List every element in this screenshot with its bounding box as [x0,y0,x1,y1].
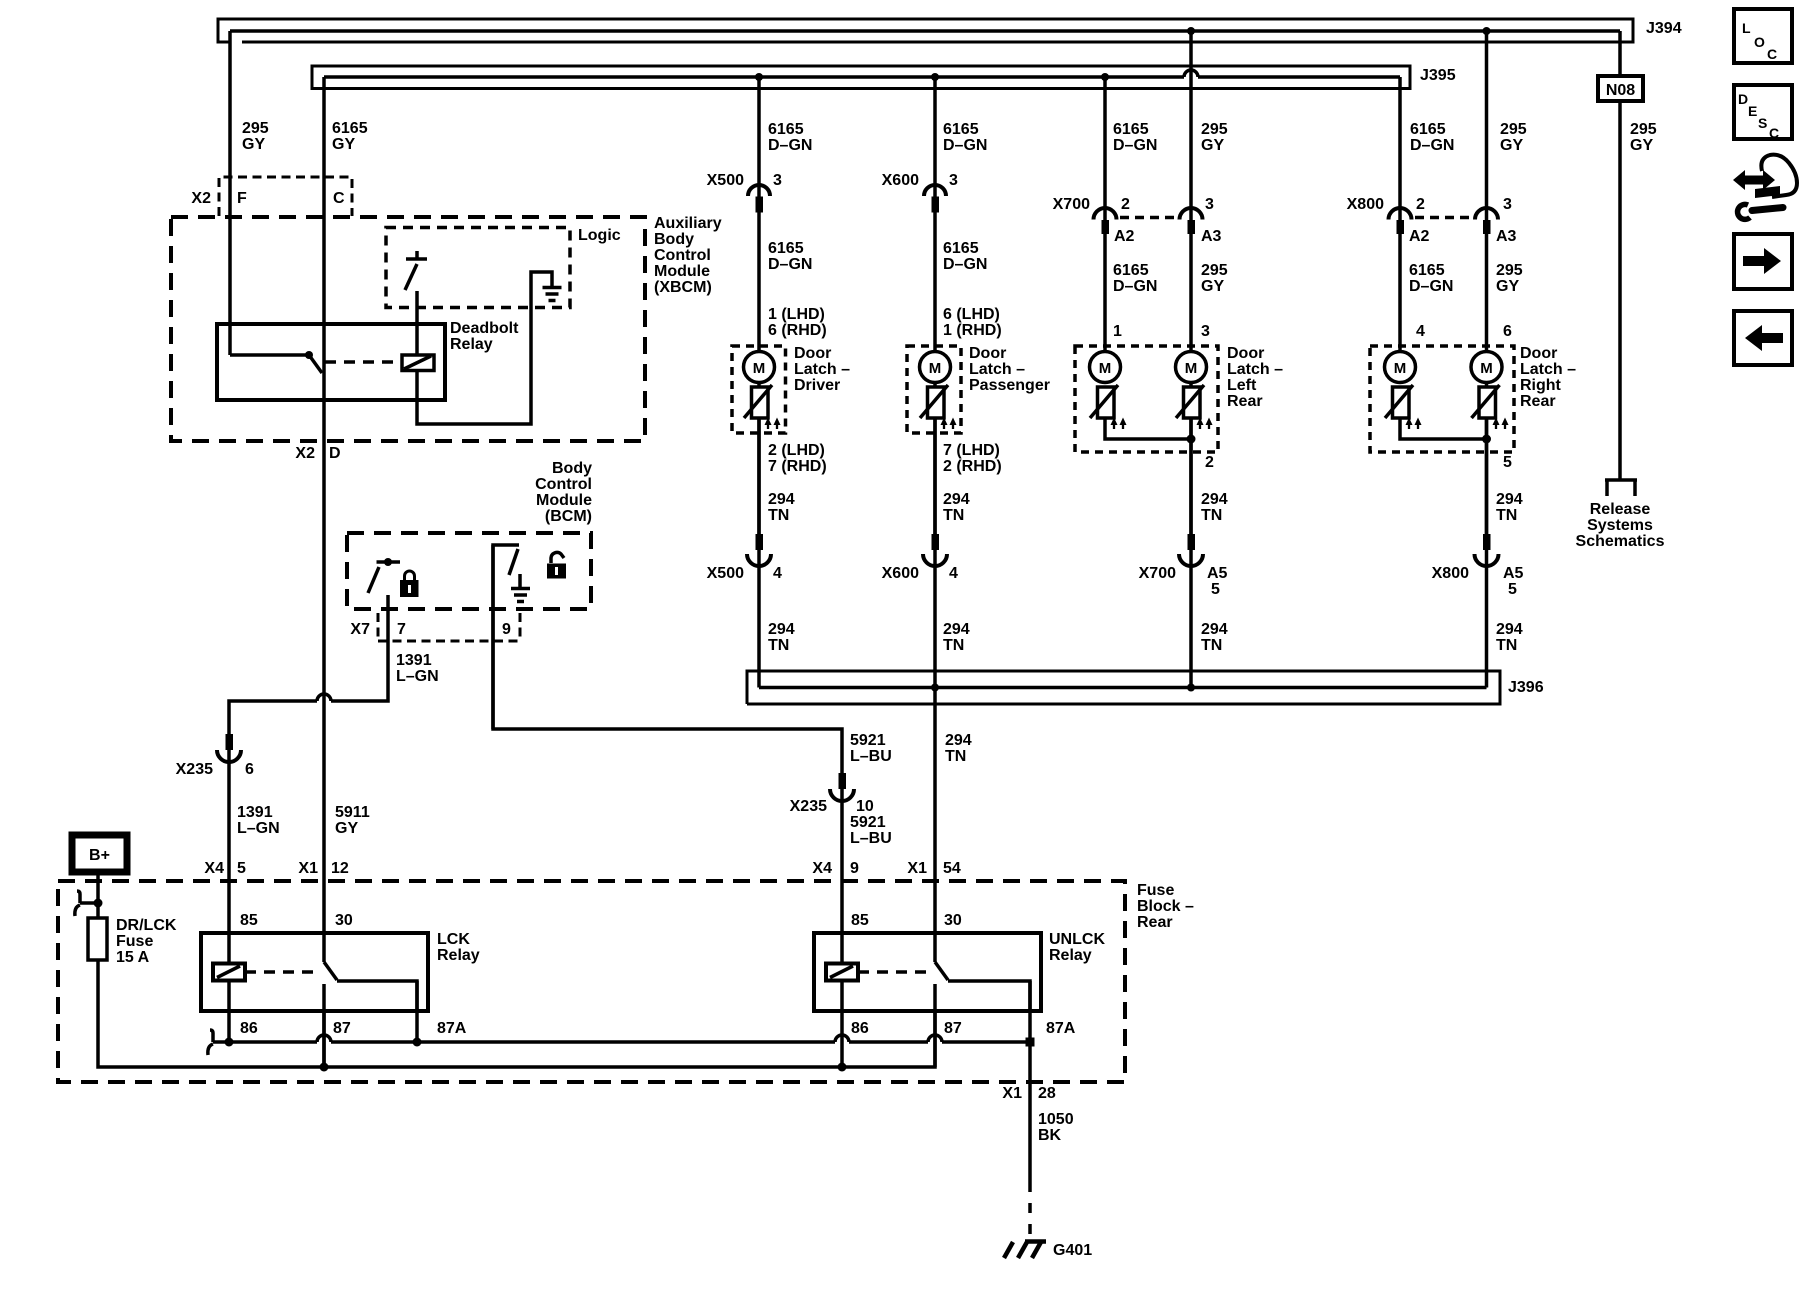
svg-text:1391: 1391 [396,652,432,669]
svg-text:Fuse: Fuse [1137,882,1174,899]
svg-text:TN: TN [1496,507,1517,524]
svg-text:Door: Door [1520,345,1557,362]
svg-text:GY: GY [1630,137,1653,154]
svg-text:Release: Release [1590,501,1651,518]
svg-text:X600: X600 [882,565,919,582]
svg-text:D–GN: D–GN [1410,137,1454,154]
svg-text:X7: X7 [350,621,370,638]
svg-text:4: 4 [773,565,782,582]
svg-text:294: 294 [1201,491,1228,508]
svg-text:10: 10 [856,798,874,815]
svg-text:Systems: Systems [1587,517,1653,534]
svg-text:X500: X500 [707,172,744,189]
svg-text:295: 295 [242,120,269,137]
svg-text:9: 9 [502,621,511,638]
svg-text:X4: X4 [204,860,224,877]
svg-text:GY: GY [335,820,358,837]
svg-text:Latch –: Latch – [794,361,850,378]
svg-text:J394: J394 [1646,20,1682,37]
svg-text:6165: 6165 [943,121,979,138]
svg-text:6165: 6165 [1113,262,1149,279]
svg-text:294: 294 [768,491,795,508]
svg-text:28: 28 [1038,1085,1056,1102]
svg-text:295: 295 [1201,262,1228,279]
svg-text:Control: Control [535,476,592,493]
svg-text:Relay: Relay [1049,947,1092,964]
svg-text:TN: TN [943,507,964,524]
svg-text:X800: X800 [1432,565,1469,582]
svg-text:6: 6 [1503,323,1512,340]
svg-text:Auxiliary: Auxiliary [654,215,722,232]
svg-text:Rear: Rear [1227,393,1263,410]
svg-text:6165: 6165 [1113,121,1149,138]
svg-text:294: 294 [768,621,795,638]
svg-text:L: L [1742,20,1751,36]
svg-text:Relay: Relay [437,947,480,964]
svg-text:6165: 6165 [768,121,804,138]
svg-text:D–GN: D–GN [768,256,812,273]
svg-text:6165: 6165 [943,240,979,257]
svg-text:87A: 87A [437,1020,467,1037]
svg-text:3: 3 [773,172,782,189]
svg-text:294: 294 [1496,621,1523,638]
svg-text:A5: A5 [1207,565,1228,582]
svg-text:(XBCM): (XBCM) [654,279,712,296]
svg-text:Fuse: Fuse [116,933,153,950]
svg-text:(BCM): (BCM) [545,508,592,525]
svg-text:D–GN: D–GN [1113,278,1157,295]
svg-text:C: C [1767,46,1777,62]
svg-text:5: 5 [1503,454,1512,471]
svg-text:L–BU: L–BU [850,748,892,765]
svg-text:295: 295 [1630,121,1657,138]
svg-text:2: 2 [1205,454,1214,471]
svg-text:15 A: 15 A [116,949,150,966]
svg-text:L–BU: L–BU [850,830,892,847]
svg-text:6165: 6165 [332,120,368,137]
svg-text:M: M [753,360,766,377]
svg-text:2: 2 [1121,196,1130,213]
svg-text:12: 12 [331,860,349,877]
svg-text:M: M [1185,360,1198,377]
svg-text:2: 2 [1416,196,1425,213]
svg-text:Rear: Rear [1137,914,1173,931]
svg-text:X2: X2 [295,445,315,462]
svg-text:5: 5 [1508,581,1517,598]
svg-text:294: 294 [943,491,970,508]
svg-text:BK: BK [1038,1127,1062,1144]
svg-text:Left: Left [1227,377,1257,394]
svg-text:GY: GY [332,136,355,153]
svg-text:M: M [1480,360,1493,377]
svg-text:5921: 5921 [850,732,886,749]
svg-text:6 (RHD): 6 (RHD) [768,322,827,339]
svg-text:Deadbolt: Deadbolt [450,320,519,337]
svg-text:F: F [237,190,247,207]
svg-text:D: D [329,445,341,462]
svg-text:2 (LHD): 2 (LHD) [768,442,825,459]
svg-text:C: C [1769,125,1779,141]
svg-text:TN: TN [1201,637,1222,654]
svg-text:D–GN: D–GN [1113,137,1157,154]
svg-text:295: 295 [1500,121,1527,138]
svg-text:Body: Body [552,460,592,477]
svg-text:86: 86 [240,1020,258,1037]
svg-text:87: 87 [333,1020,351,1037]
svg-text:J395: J395 [1420,67,1456,84]
svg-text:294: 294 [945,732,972,749]
svg-text:1: 1 [1113,323,1122,340]
svg-text:3: 3 [1201,323,1210,340]
svg-text:TN: TN [768,507,789,524]
svg-text:5911: 5911 [335,804,370,821]
svg-text:A5: A5 [1503,565,1524,582]
svg-text:A2: A2 [1409,228,1430,245]
svg-text:X700: X700 [1139,565,1176,582]
svg-text:TN: TN [945,748,966,765]
svg-text:6 (LHD): 6 (LHD) [943,306,1000,323]
svg-text:A2: A2 [1114,228,1135,245]
svg-text:Door: Door [794,345,831,362]
svg-text:6: 6 [245,761,254,778]
svg-text:X2: X2 [191,190,211,207]
svg-text:87: 87 [944,1020,962,1037]
svg-text:Passenger: Passenger [969,377,1050,394]
svg-text:Door: Door [969,345,1006,362]
svg-text:5: 5 [1211,581,1220,598]
svg-text:6165: 6165 [1409,262,1445,279]
svg-text:GY: GY [1500,137,1523,154]
svg-text:6165: 6165 [768,240,804,257]
svg-text:X4: X4 [812,860,832,877]
svg-text:Logic: Logic [578,227,621,244]
svg-text:1050: 1050 [1038,1111,1074,1128]
svg-text:D: D [1738,91,1748,107]
svg-text:1391: 1391 [237,804,273,821]
svg-text:3: 3 [1205,196,1214,213]
svg-text:295: 295 [1496,262,1523,279]
svg-text:Latch –: Latch – [1227,361,1283,378]
svg-text:M: M [929,360,942,377]
svg-text:30: 30 [944,912,962,929]
svg-text:GY: GY [1496,278,1519,295]
svg-text:5: 5 [237,860,246,877]
svg-text:S: S [1758,115,1767,131]
svg-text:1 (RHD): 1 (RHD) [943,322,1002,339]
svg-text:TN: TN [768,637,789,654]
svg-text:TN: TN [1496,637,1517,654]
svg-text:GY: GY [242,136,265,153]
svg-text:3: 3 [949,172,958,189]
svg-text:N08: N08 [1606,82,1635,99]
svg-text:D–GN: D–GN [943,137,987,154]
svg-text:Schematics: Schematics [1576,533,1665,550]
svg-text:L–GN: L–GN [396,668,439,685]
svg-text:X1: X1 [298,860,318,877]
svg-text:294: 294 [1496,491,1523,508]
svg-text:9: 9 [850,860,859,877]
svg-text:Block –: Block – [1137,898,1194,915]
svg-text:7 (RHD): 7 (RHD) [768,458,827,475]
svg-text:J396: J396 [1508,679,1544,696]
svg-text:X600: X600 [882,172,919,189]
svg-text:TN: TN [1201,507,1222,524]
svg-text:E: E [1748,103,1757,119]
svg-text:D–GN: D–GN [768,137,812,154]
svg-text:X800: X800 [1347,196,1384,213]
svg-text:Latch –: Latch – [969,361,1025,378]
svg-text:294: 294 [1201,621,1228,638]
svg-text:87A: 87A [1046,1020,1076,1037]
svg-text:D–GN: D–GN [1409,278,1453,295]
svg-text:Rear: Rear [1520,393,1556,410]
svg-text:4: 4 [949,565,958,582]
svg-text:A3: A3 [1496,228,1517,245]
svg-text:B+: B+ [89,847,110,864]
svg-text:294: 294 [943,621,970,638]
svg-text:6165: 6165 [1410,121,1446,138]
svg-text:7: 7 [397,621,406,638]
svg-text:Module: Module [654,263,710,280]
svg-text:GY: GY [1201,137,1224,154]
svg-text:X500: X500 [707,565,744,582]
svg-text:X1: X1 [907,860,927,877]
svg-text:Driver: Driver [794,377,840,394]
svg-text:L–GN: L–GN [237,820,280,837]
svg-text:3: 3 [1503,196,1512,213]
svg-text:M: M [1099,360,1112,377]
svg-text:86: 86 [851,1020,869,1037]
svg-text:X235: X235 [176,761,213,778]
svg-text:O: O [1754,34,1765,50]
svg-text:54: 54 [943,860,961,877]
svg-text:DR/LCK: DR/LCK [116,917,177,934]
svg-text:1 (LHD): 1 (LHD) [768,306,825,323]
svg-text:D–GN: D–GN [943,256,987,273]
svg-text:A3: A3 [1201,228,1222,245]
svg-text:Right: Right [1520,377,1562,394]
svg-text:Control: Control [654,247,711,264]
svg-text:LCK: LCK [437,931,470,948]
svg-text:Door: Door [1227,345,1264,362]
svg-text:85: 85 [240,912,258,929]
svg-text:X1: X1 [1002,1085,1022,1102]
svg-text:5921: 5921 [850,814,886,831]
svg-text:4: 4 [1416,323,1425,340]
svg-text:Latch –: Latch – [1520,361,1576,378]
svg-text:TN: TN [943,637,964,654]
svg-text:X700: X700 [1053,196,1090,213]
svg-text:M: M [1394,360,1407,377]
svg-text:G401: G401 [1053,1242,1092,1259]
svg-text:85: 85 [851,912,869,929]
svg-text:2 (RHD): 2 (RHD) [943,458,1002,475]
svg-text:Body: Body [654,231,694,248]
svg-text:GY: GY [1201,278,1224,295]
svg-text:Module: Module [536,492,592,509]
svg-text:30: 30 [335,912,353,929]
svg-text:7 (LHD): 7 (LHD) [943,442,1000,459]
svg-text:295: 295 [1201,121,1228,138]
svg-text:X235: X235 [790,798,827,815]
svg-text:UNLCK: UNLCK [1049,931,1105,948]
svg-text:Relay: Relay [450,336,493,353]
svg-text:C: C [333,190,345,207]
